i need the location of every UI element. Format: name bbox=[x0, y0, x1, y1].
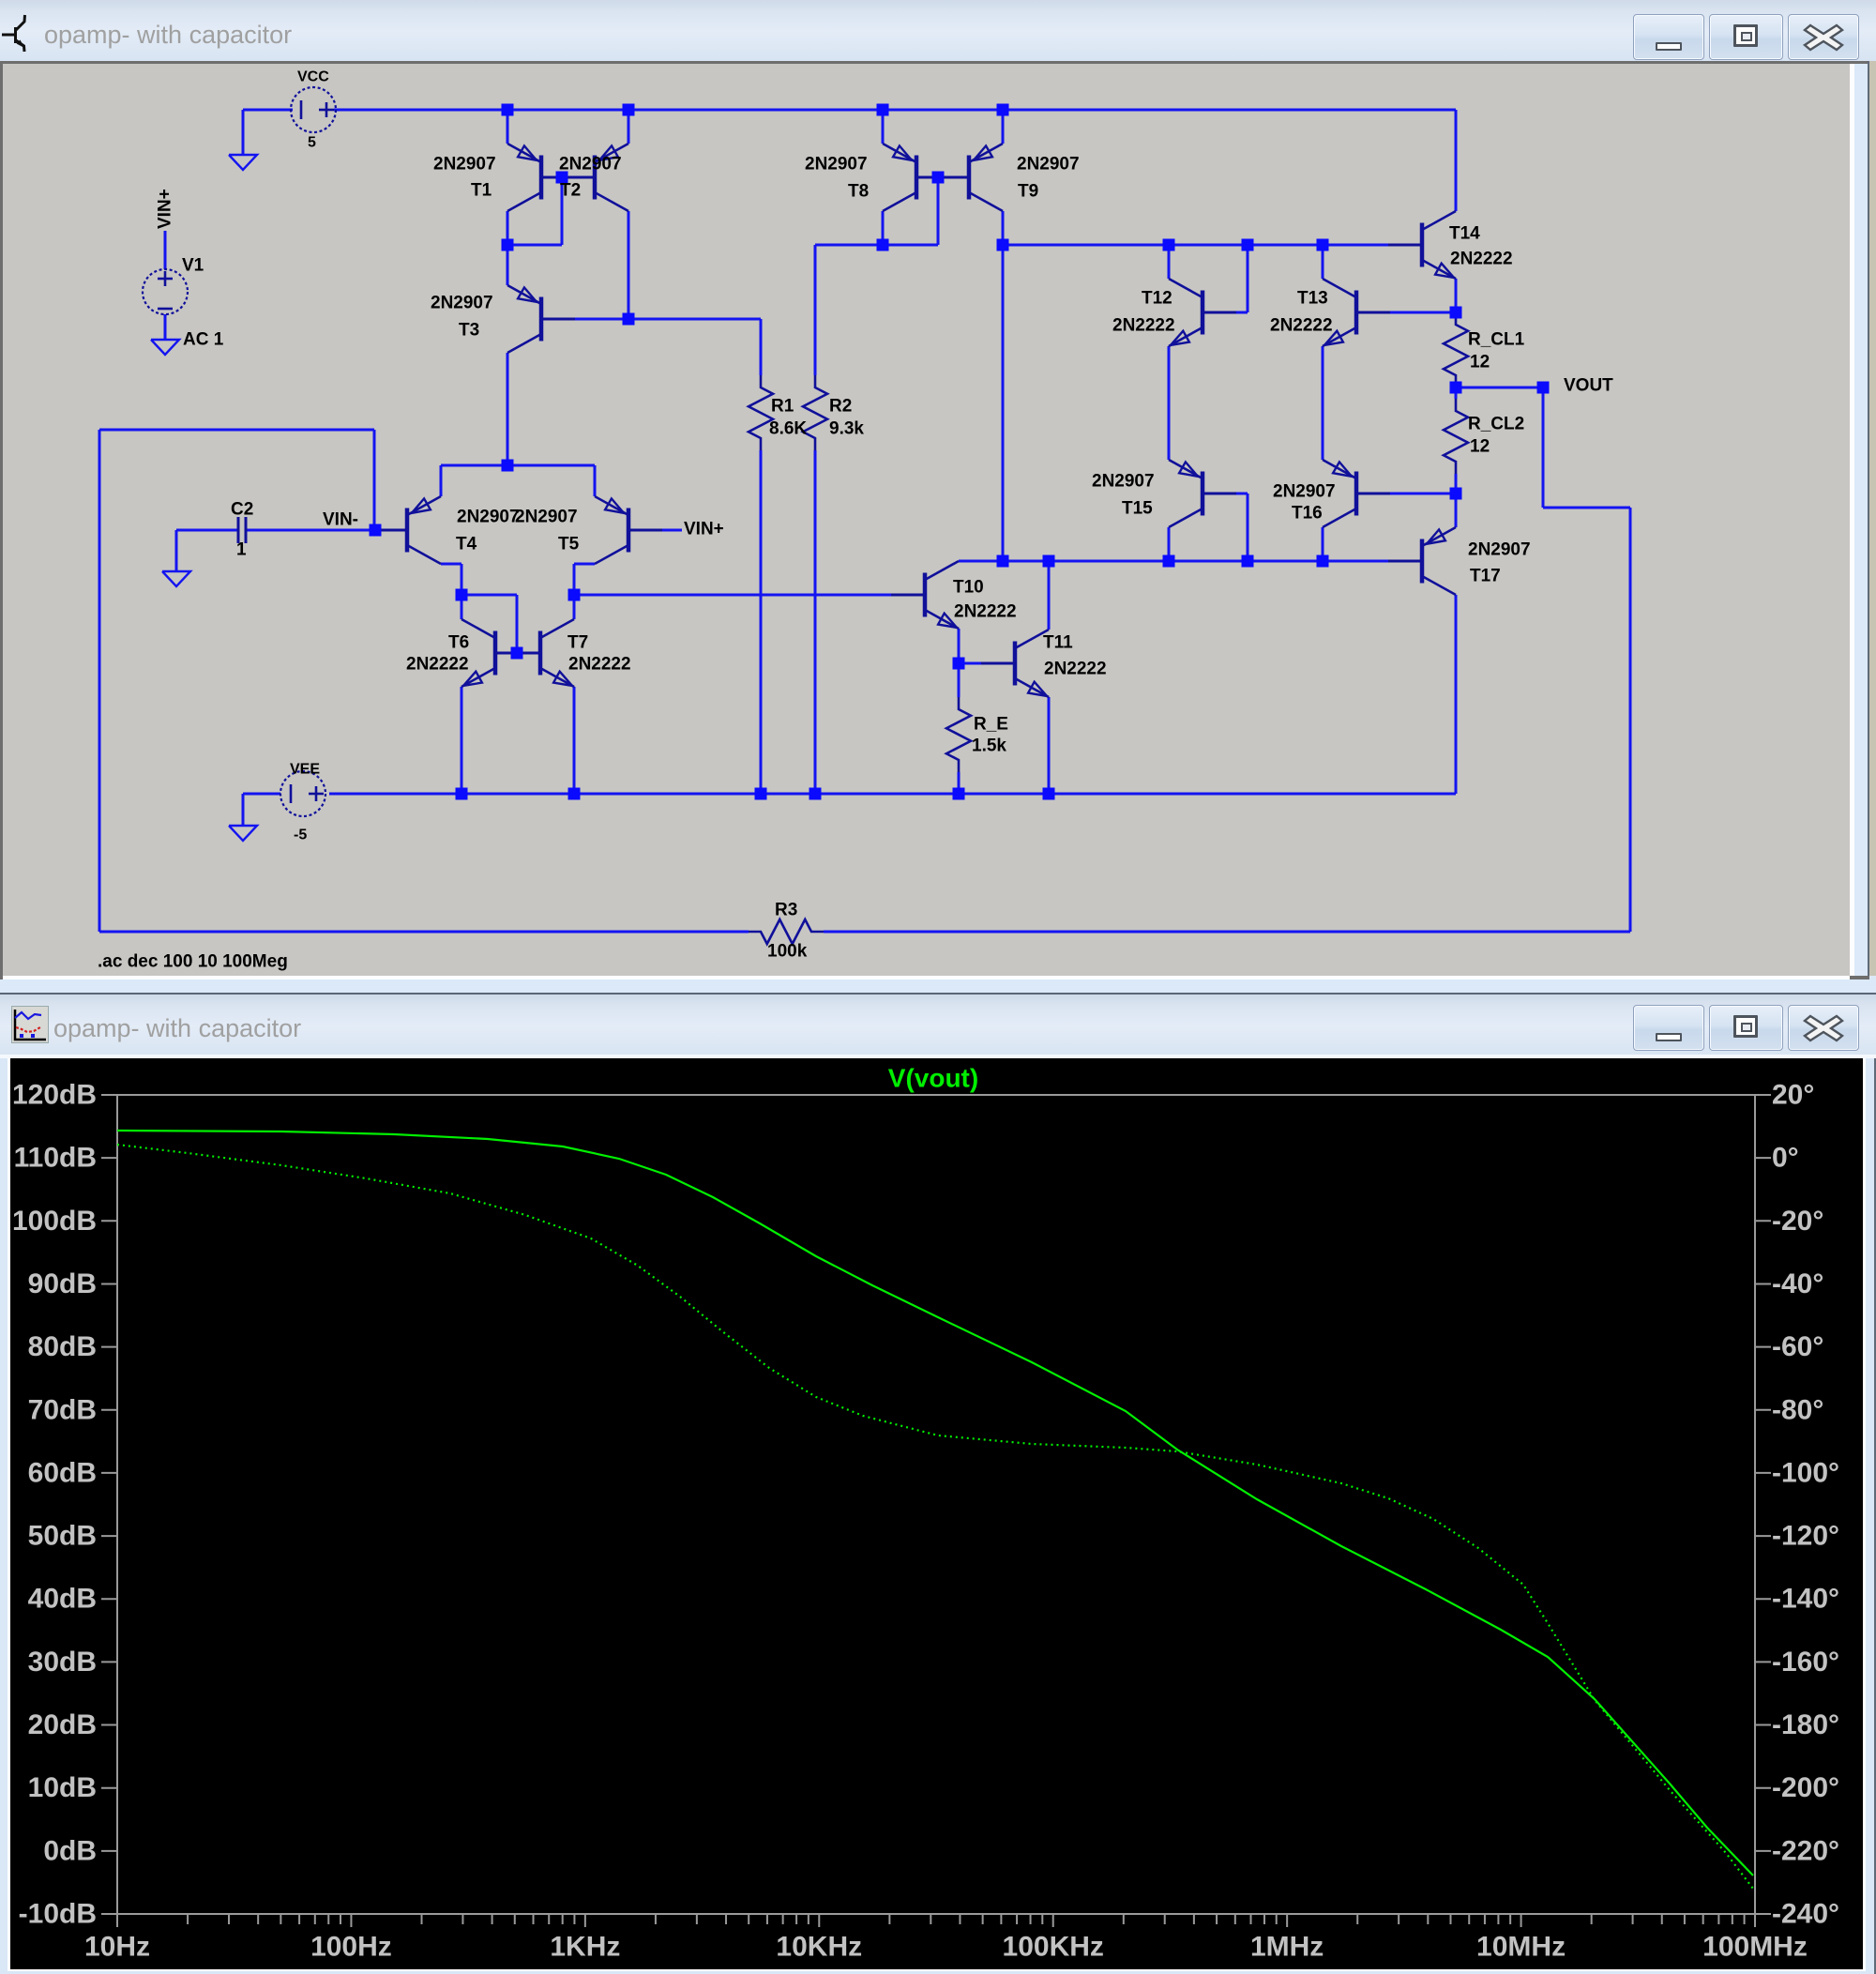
svg-text:100MHz: 100MHz bbox=[1702, 1932, 1808, 1963]
svg-text:60dB: 60dB bbox=[28, 1457, 97, 1488]
svg-text:-40°: -40° bbox=[1772, 1268, 1823, 1299]
svg-text:-10dB: -10dB bbox=[19, 1899, 97, 1930]
svg-text:80dB: 80dB bbox=[28, 1331, 97, 1362]
svg-text:10MHz: 10MHz bbox=[1476, 1932, 1566, 1963]
svg-text:10dB: 10dB bbox=[28, 1772, 97, 1803]
svg-text:-160°: -160° bbox=[1772, 1647, 1839, 1678]
svg-text:110dB: 110dB bbox=[14, 1143, 97, 1174]
svg-text:10KHz: 10KHz bbox=[776, 1932, 862, 1963]
svg-text:-80°: -80° bbox=[1772, 1394, 1823, 1425]
svg-text:10Hz: 10Hz bbox=[84, 1932, 150, 1963]
svg-text:-60°: -60° bbox=[1772, 1331, 1823, 1362]
svg-text:-20°: -20° bbox=[1772, 1206, 1823, 1237]
svg-text:-140°: -140° bbox=[1772, 1584, 1839, 1615]
svg-text:20°: 20° bbox=[1772, 1080, 1814, 1111]
svg-text:0°: 0° bbox=[1772, 1143, 1799, 1174]
svg-text:-240°: -240° bbox=[1772, 1899, 1839, 1930]
svg-text:20dB: 20dB bbox=[28, 1709, 97, 1740]
svg-text:-120°: -120° bbox=[1772, 1521, 1839, 1552]
svg-text:100dB: 100dB bbox=[12, 1206, 97, 1237]
svg-text:-200°: -200° bbox=[1772, 1772, 1839, 1803]
svg-text:0dB: 0dB bbox=[43, 1835, 97, 1866]
svg-text:100KHz: 100KHz bbox=[1003, 1932, 1104, 1963]
svg-text:90dB: 90dB bbox=[28, 1268, 97, 1299]
svg-text:V(vout): V(vout) bbox=[888, 1064, 978, 1093]
svg-text:120dB: 120dB bbox=[12, 1080, 97, 1111]
svg-text:40dB: 40dB bbox=[28, 1584, 97, 1615]
svg-text:1MHz: 1MHz bbox=[1250, 1932, 1324, 1963]
svg-text:1KHz: 1KHz bbox=[550, 1932, 620, 1963]
svg-text:-220°: -220° bbox=[1772, 1835, 1839, 1866]
svg-text:-100°: -100° bbox=[1772, 1457, 1839, 1488]
svg-text:30dB: 30dB bbox=[28, 1647, 97, 1678]
svg-text:50dB: 50dB bbox=[28, 1521, 97, 1552]
svg-text:70dB: 70dB bbox=[28, 1394, 97, 1425]
svg-text:100Hz: 100Hz bbox=[310, 1932, 392, 1963]
svg-text:-180°: -180° bbox=[1772, 1709, 1839, 1740]
